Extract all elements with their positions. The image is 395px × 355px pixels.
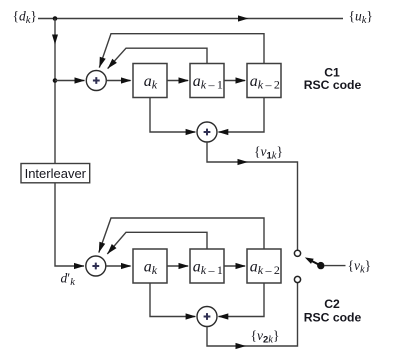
- svg-text:{dk}: {dk}: [13, 9, 37, 26]
- wire: a_k-1 to a_k-2 (C1): [224, 77, 246, 83]
- wire: feedback from a_k-2 top to adder A1 (C1): [99, 34, 264, 68]
- adder A3 (C2 input summer): [86, 256, 106, 276]
- wire: feedback from a_k-1 top to adder A3 (C2): [107, 232, 207, 254]
- register a_k (C1): [133, 64, 167, 98]
- wire: interleaver output to adder A3: [55, 183, 85, 269]
- wire: feedback from a_k-2 top to adder A3 (C2): [99, 218, 264, 253]
- register a_k-2 (C1): [247, 64, 281, 98]
- wire: a_k to a_k-1 (C1): [167, 77, 189, 83]
- wire: v2k output from adder A4 to switch terminal: [207, 283, 298, 349]
- wire: adder A1 to register a_k (C1): [106, 77, 131, 83]
- wire: adder A3 to register a_k (C2): [106, 263, 132, 269]
- interleaver: [21, 164, 90, 183]
- wire: v1k output from adder A2 to switch terminal: [207, 142, 298, 250]
- wire: junction into adder A1: [55, 77, 85, 83]
- svg-text:{vk}: {vk}: [348, 258, 372, 275]
- wire: switch pole to v_k label: [324, 265, 346, 267]
- wire: a_k bottom to parity adder A2 (C1): [150, 98, 196, 136]
- register a_k-2 (C2): [247, 249, 281, 283]
- node: junction feeding C1 adder: [53, 78, 58, 83]
- svg-text:Interleaver: Interleaver: [25, 166, 87, 181]
- switch terminal for v1k (open contact): [294, 250, 300, 256]
- register a_k-1 (C1): [190, 64, 224, 98]
- register a_k-1 (C2): [190, 249, 224, 283]
- wire: a_k-2 bottom to parity adder A4 (C2): [218, 283, 264, 320]
- wire: a_k to a_k-1 (C2): [167, 263, 189, 269]
- label C2 RSC code: [304, 297, 362, 325]
- node: branch junction on input line: [53, 16, 58, 21]
- wire: a_k-1 to a_k-2 (C2): [224, 263, 246, 269]
- svg-text:RSC code: RSC code: [304, 78, 362, 92]
- wire: main input line d_k to u_k: [38, 15, 343, 21]
- adder A4 (C2 parity summer): [197, 307, 217, 327]
- svg-text:C2: C2: [324, 297, 340, 311]
- switch arm with arrowhead: [305, 257, 321, 265]
- wire: branch down to interleaver: [52, 19, 58, 164]
- label C1 RSC code: [304, 66, 362, 93]
- wire: a_k bottom to parity adder A4 (C2): [150, 283, 196, 320]
- switch pole node: [317, 262, 324, 269]
- wire: feedback from a_k-1 top to adder A1 (C1): [108, 48, 207, 68]
- register a_k (C2): [133, 249, 167, 283]
- svg-text:RSC code: RSC code: [304, 311, 362, 325]
- adder A2 (C1 parity summer): [197, 122, 217, 142]
- adder A1 (C1 input summer): [86, 71, 106, 91]
- svg-text:{uk}: {uk}: [349, 9, 373, 26]
- wire: a_k-2 bottom to parity adder A2 (C1): [218, 98, 264, 136]
- switch terminal for v2k (open contact): [294, 276, 300, 282]
